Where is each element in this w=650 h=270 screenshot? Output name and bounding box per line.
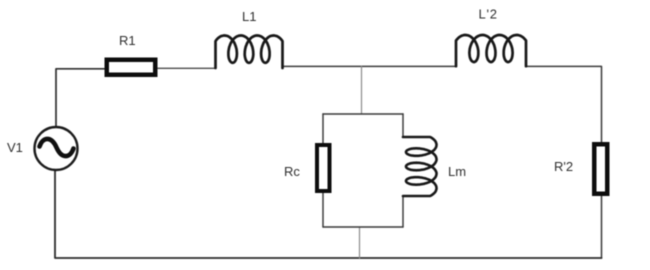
Rc branch wires <box>322 114 324 144</box>
parallel box bottom wire <box>323 226 403 228</box>
svg-text:R'2: R'2 <box>554 159 573 174</box>
parallel box top wire <box>323 113 403 115</box>
svg-text:Lm: Lm <box>448 164 466 179</box>
inductor Lm <box>403 137 437 196</box>
source V1 circle <box>35 127 78 170</box>
wire top-left: V1 top to R1 <box>56 69 104 127</box>
wire R'2 to bottom <box>601 196 603 258</box>
node stub bottom middle (grey) <box>359 227 361 258</box>
resistor Rc <box>315 143 332 193</box>
node stub top middle (grey) <box>361 66 363 114</box>
resistor R'2 <box>592 142 610 196</box>
source V1 sine <box>40 139 74 156</box>
inductor L1 <box>216 36 283 69</box>
Lm branch wires <box>402 114 404 137</box>
resistor R1 <box>105 58 158 78</box>
svg-text:L'2: L'2 <box>479 7 498 22</box>
svg-text:V1: V1 <box>7 140 23 155</box>
bottom wire <box>55 170 602 258</box>
wire L'2 to right corner, down to R'2 <box>526 66 602 142</box>
svg-text:Rc: Rc <box>284 164 300 179</box>
inductor L'2 <box>456 35 526 66</box>
wire L1 to L'2 (top middle) <box>283 65 457 67</box>
svg-text:R1: R1 <box>119 33 136 48</box>
svg-text:L1: L1 <box>242 9 256 24</box>
wire R1 to L1 <box>158 67 216 69</box>
